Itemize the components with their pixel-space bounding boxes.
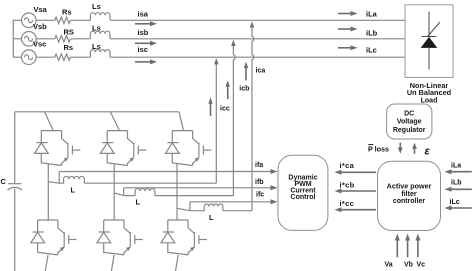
label P loss	[368, 145, 389, 154]
svg-text:Control: Control	[291, 194, 316, 201]
svg-text:Vc: Vc	[417, 262, 426, 269]
svg-text:L: L	[209, 213, 214, 222]
wire phase a: source to Rs	[36, 19, 55, 21]
svg-text:Voltage: Voltage	[397, 119, 422, 126]
leg 3 tap to filter inductor	[177, 202, 190, 211]
filter inductor L leg3 and wire to phase a injection	[190, 204, 252, 211]
inductor Ls phase b	[90, 31, 110, 39]
inductor Ls phase c	[90, 50, 110, 58]
dynamic PWM current control box	[278, 155, 328, 230]
svg-text:P loss: P loss	[368, 145, 389, 154]
wire phase b: Ls to load	[110, 38, 405, 40]
current arrow ica	[244, 62, 248, 81]
source Vsa	[22, 13, 37, 28]
wire phase c: Ls to load	[110, 56, 405, 58]
wire phase b: source to Rs	[36, 38, 55, 40]
arrow Va into APF controller	[395, 234, 400, 258]
svg-text:ifb: ifb	[255, 179, 264, 186]
svg-text:Vb: Vb	[404, 262, 413, 269]
leg 2 midpoint wire	[113, 164, 115, 220]
svg-text:iLc: iLc	[450, 199, 460, 206]
svg-text:Rs: Rs	[62, 8, 72, 17]
arrow Vc into APF controller	[415, 234, 420, 258]
svg-text:Va: Va	[385, 262, 393, 269]
svg-text:isb: isb	[138, 28, 149, 37]
arrow APF to DC regulator (up)	[412, 143, 417, 154]
current arrow iLa	[338, 11, 358, 16]
arrowhead on injection wire at wire a	[250, 21, 254, 27]
arrowhead on injection wire at wire c	[214, 58, 218, 64]
IGBT cell leg1 bottom	[31, 220, 77, 255]
bottom cell tail leg2	[111, 255, 114, 271]
svg-text:iLa: iLa	[451, 163, 461, 170]
bottom cell tail leg1	[45, 255, 48, 271]
DC bus capacitor branch	[14, 112, 16, 271]
svg-text:RS: RS	[64, 28, 74, 37]
resistor Rs phase b	[55, 36, 71, 42]
current arrow icc	[208, 97, 212, 116]
DC bus top rail	[15, 111, 179, 113]
filter inductor L leg2 and wire to phase b injection	[124, 189, 234, 196]
svg-text:isa: isa	[138, 10, 149, 19]
svg-text:Un Balanced: Un Balanced	[407, 88, 451, 97]
wire ifb to PWM box	[124, 185, 278, 190]
leg 2 tap to filter inductor	[114, 188, 124, 196]
wire phase b: Rs to Ls	[70, 38, 90, 40]
svg-text:ica: ica	[256, 68, 266, 75]
svg-text:Vsb: Vsb	[33, 22, 47, 31]
arrowhead on injection wire at wire b	[231, 40, 235, 46]
arrow i*cc APF to PWM	[335, 207, 377, 212]
bottom cell tail leg3	[176, 255, 179, 271]
svg-text:Regulator: Regulator	[393, 127, 426, 134]
svg-text:ifa: ifa	[255, 162, 263, 169]
wire stub bus to Vsc	[13, 56, 21, 58]
svg-text:Vsa: Vsa	[34, 5, 48, 14]
svg-text:iLb: iLb	[451, 180, 462, 187]
svg-text:C: C	[1, 177, 7, 186]
svg-text:i*cc: i*cc	[340, 199, 355, 208]
capacitor C plates	[8, 183, 22, 185]
source Vsb	[22, 32, 37, 47]
non-linear load box	[405, 5, 453, 78]
wire phase a: Ls to load	[110, 19, 405, 21]
leg 1 entry from rail	[45, 112, 54, 131]
leg 1 midpoint wire	[47, 164, 49, 220]
current arrow iLc	[338, 45, 358, 50]
svg-text:Rs: Rs	[64, 43, 74, 52]
svg-text:iLc: iLc	[366, 46, 377, 55]
arrow i*ca APF to PWM	[335, 170, 377, 175]
resistor Rs phase c	[55, 54, 71, 60]
arrow i*cb APF to PWM	[335, 189, 377, 194]
left source bus	[12, 20, 14, 57]
injection wire phase a (leg3): vertical with hops over wires b,c	[252, 28, 254, 211]
leg 3 midpoint wire	[176, 164, 178, 220]
svg-text:iLa: iLa	[366, 10, 378, 19]
arrow Vb into APF controller	[405, 234, 410, 258]
svg-text:L: L	[136, 198, 141, 207]
svg-text:Ls: Ls	[92, 42, 101, 51]
injection wire phase c (leg1): vertical with arrow to wire c	[215, 64, 217, 183]
injection wire phase b (leg2): vertical with hop over wire c	[233, 46, 235, 196]
svg-text:filter: filter	[401, 191, 416, 198]
wire ifa to PWM box	[59, 169, 277, 174]
svg-text:Active power: Active power	[387, 182, 432, 191]
arrow iLc into APF controller	[445, 206, 472, 211]
IGBT cell leg1 top	[35, 131, 81, 166]
active power filter controller box	[378, 161, 441, 230]
leg 3 entry from rail	[179, 112, 184, 131]
IGBT cell leg2 bottom	[97, 220, 143, 255]
leg 2 entry from rail	[110, 112, 119, 131]
svg-text:isc: isc	[138, 45, 148, 54]
svg-text:L: L	[71, 186, 76, 195]
wire ifc to PWM box	[190, 199, 278, 204]
svg-text:icc: icc	[220, 106, 230, 113]
current arrow isa	[135, 21, 157, 26]
wire phase c: Rs to Ls	[70, 56, 90, 58]
svg-text:Ls: Ls	[92, 24, 101, 33]
inductor Ls phase a	[90, 13, 110, 21]
arrow iLa into APF controller	[445, 169, 472, 174]
filter inductor L leg1 and wire to phase c injection	[59, 176, 216, 183]
svg-text:i*cb: i*cb	[340, 180, 355, 189]
svg-text:Ls: Ls	[92, 2, 101, 11]
svg-text:i*ca: i*ca	[340, 161, 355, 170]
source Vsc	[22, 50, 37, 65]
wire stub bus to Vsb	[13, 38, 22, 40]
DC voltage regulator box	[387, 104, 432, 139]
resistor Rs phase a	[55, 17, 71, 23]
svg-text:icb: icb	[239, 86, 249, 93]
svg-text:DC: DC	[404, 111, 414, 118]
svg-text:ε: ε	[425, 146, 431, 158]
current arrow isb	[135, 41, 157, 46]
svg-text:controller: controller	[393, 198, 426, 205]
current arrow icb	[226, 80, 230, 99]
current arrow iLb	[338, 27, 358, 32]
svg-text:iLb: iLb	[366, 28, 378, 37]
thyristor in load box	[422, 12, 441, 70]
wire phase c: source to Rs	[36, 56, 55, 58]
svg-text:Vsc: Vsc	[33, 40, 46, 49]
leg 1 tap to filter inductor	[48, 172, 59, 184]
IGBT cell leg3 bottom	[161, 220, 207, 255]
current arrow isc	[135, 59, 157, 64]
svg-text:Load: Load	[421, 97, 438, 104]
wire stub bus to Vsa	[13, 19, 21, 21]
wire phase a: Rs to Ls	[70, 19, 90, 21]
arrow DC regulator to APF (down)	[398, 143, 403, 154]
svg-text:ifc: ifc	[256, 192, 264, 199]
IGBT cell leg3 top	[166, 131, 212, 166]
IGBT cell leg2 top	[100, 131, 146, 166]
arrow iLb into APF controller	[445, 187, 472, 192]
